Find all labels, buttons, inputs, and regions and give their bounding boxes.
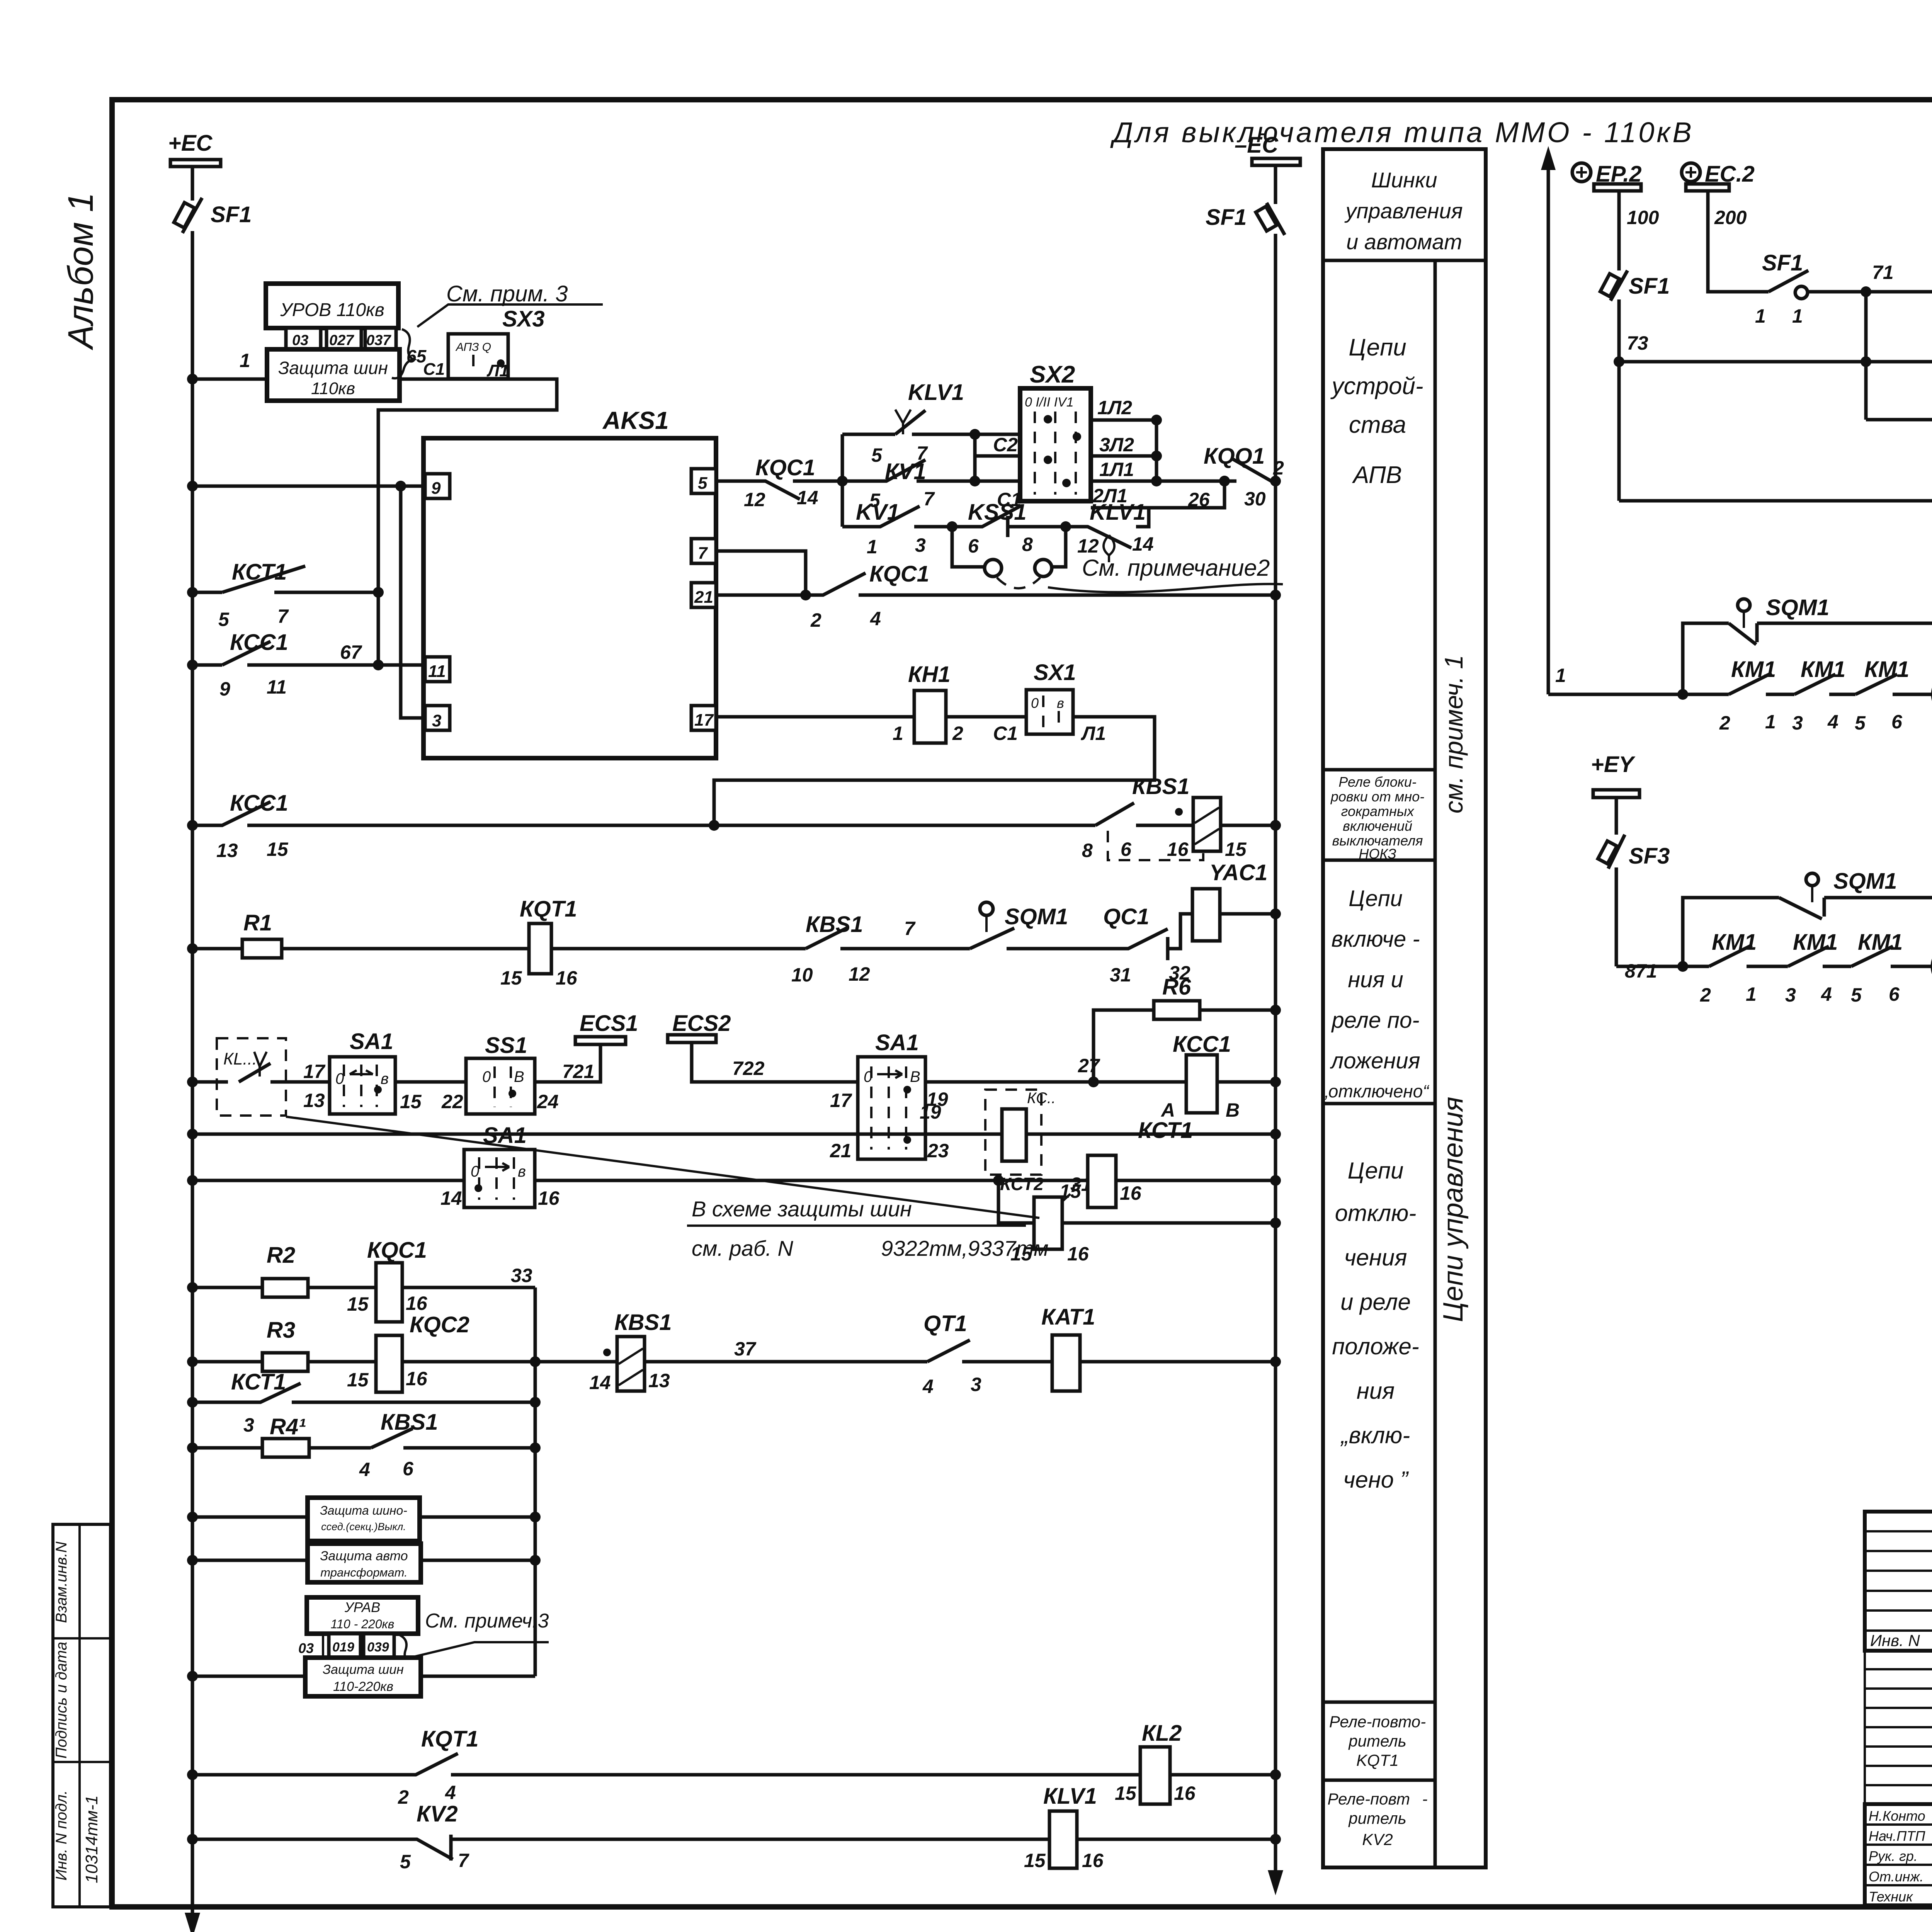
svg-text:722: 722 bbox=[732, 1058, 765, 1079]
svg-text:В: В bbox=[910, 1068, 920, 1085]
svg-text:КQC1: КQC1 bbox=[755, 455, 815, 480]
svg-text:5: 5 bbox=[400, 1851, 411, 1872]
svg-text:2: 2 bbox=[398, 1786, 409, 1808]
left rows column bbox=[1865, 1651, 1932, 1804]
svg-text:721: 721 bbox=[562, 1061, 594, 1082]
svg-text:9322тм,9337тм: 9322тм,9337тм bbox=[881, 1236, 1049, 1260]
cells 03 027 037 bbox=[286, 328, 321, 349]
svg-text:Альбом 1: Альбом 1 bbox=[61, 192, 100, 350]
wire C2 branch bbox=[975, 434, 1020, 481]
block Защита шин 110кВ bbox=[267, 349, 400, 401]
svg-text:15: 15 bbox=[267, 838, 289, 860]
svg-text:3: 3 bbox=[971, 1374, 981, 1395]
svg-text:управления: управления bbox=[1344, 199, 1463, 223]
svg-text:2: 2 bbox=[1700, 984, 1711, 1006]
svg-text:В схеме защиты шин: В схеме защиты шин bbox=[692, 1197, 912, 1221]
svg-text:Цепи: Цепи bbox=[1348, 1158, 1404, 1184]
svg-text:10: 10 bbox=[791, 964, 813, 986]
svg-text:КВS1: КВS1 bbox=[1132, 774, 1189, 799]
pin 5 bbox=[691, 469, 716, 493]
svg-text:ритель: ритель bbox=[1348, 1732, 1406, 1750]
svg-text:1: 1 bbox=[1765, 711, 1776, 733]
wire 2Л1 bbox=[1091, 481, 1225, 508]
svg-text:+EC: +EC bbox=[168, 131, 213, 156]
svg-text:+EY: +EY bbox=[1591, 752, 1636, 777]
svg-text:17: 17 bbox=[694, 711, 714, 730]
svg-text:3: 3 bbox=[432, 711, 441, 730]
svg-text:чения: чения bbox=[1344, 1245, 1407, 1270]
svg-text:1: 1 bbox=[240, 350, 250, 371]
block Защита авто-трансформат. bbox=[192, 1559, 535, 1562]
svg-text:устрой-: устрой- bbox=[1330, 373, 1423, 400]
svg-text:27: 27 bbox=[1078, 1055, 1100, 1077]
svg-text:12: 12 bbox=[744, 489, 765, 510]
svg-text:КСТ1: КСТ1 bbox=[231, 1369, 286, 1395]
wire row 11-15 bbox=[1619, 499, 1932, 503]
svg-text:KV2: KV2 bbox=[1362, 1830, 1393, 1849]
variant 2 main wire bbox=[1616, 898, 1779, 966]
svg-text:С1: С1 bbox=[993, 723, 1018, 744]
svg-text:Инв. N: Инв. N bbox=[1870, 1631, 1920, 1650]
svg-text:Защита шин: Защита шин bbox=[323, 1662, 404, 1677]
svg-text:871: 871 bbox=[1625, 960, 1657, 982]
svg-text:ложения: ложения bbox=[1330, 1048, 1420, 1073]
svg-text:ровки от мно-: ровки от мно- bbox=[1330, 789, 1424, 804]
pin 11 bbox=[425, 657, 450, 682]
svg-text:3: 3 bbox=[915, 534, 926, 556]
block Защита шин 110-220кВ bbox=[192, 1675, 535, 1678]
svg-text:Защита шино-: Защита шино- bbox=[320, 1503, 407, 1517]
svg-text:см. раб. N: см. раб. N bbox=[692, 1236, 793, 1260]
pin 3 bbox=[425, 706, 450, 730]
svg-text:13: 13 bbox=[216, 840, 238, 861]
svg-text:КСС1: КСС1 bbox=[230, 791, 288, 816]
svg-text:и реле: и реле bbox=[1340, 1289, 1411, 1315]
svg-text:QC1: QC1 bbox=[1103, 904, 1149, 929]
svg-text:KQT1: KQT1 bbox=[1356, 1751, 1399, 1769]
junction vertical bbox=[841, 434, 844, 527]
svg-text:R2: R2 bbox=[267, 1243, 295, 1268]
svg-text:в: в bbox=[381, 1070, 389, 1087]
wire row B2 bbox=[192, 1179, 1276, 1182]
svg-text:16: 16 bbox=[406, 1293, 428, 1314]
svg-text:SQМ1: SQМ1 bbox=[1833, 869, 1897, 894]
wire row A right bbox=[925, 1080, 1186, 1084]
svg-text:Реле-повт-: Реле-повт- bbox=[1328, 1790, 1428, 1808]
svg-text:Н.Конто: Н.Конто bbox=[1869, 1808, 1925, 1824]
svg-text:КLV1: КLV1 bbox=[1043, 1784, 1097, 1809]
svg-text:1: 1 bbox=[893, 723, 903, 744]
svg-text:67: 67 bbox=[340, 641, 362, 663]
svg-text:Инв. N подл.: Инв. N подл. bbox=[53, 1790, 70, 1881]
svg-text:SF1: SF1 bbox=[1206, 205, 1247, 230]
svg-text:1: 1 bbox=[1746, 983, 1757, 1005]
svg-text:АПВ: АПВ bbox=[1352, 462, 1402, 488]
svg-text:2: 2 bbox=[810, 609, 821, 631]
svg-text:SX1: SX1 bbox=[1034, 660, 1076, 685]
svg-text:15: 15 bbox=[500, 967, 522, 989]
svg-text:019: 019 bbox=[332, 1640, 354, 1655]
svg-text:–EC: –EC bbox=[1235, 133, 1279, 158]
svg-text:Цепи: Цепи bbox=[1349, 334, 1406, 361]
svg-text:1: 1 bbox=[1555, 665, 1566, 686]
svg-text:16: 16 bbox=[556, 967, 578, 989]
svg-text:КМ1: КМ1 bbox=[1712, 930, 1757, 955]
wires 1Л2 3Л2 ladder bbox=[1091, 420, 1156, 481]
svg-text:КАТ1: КАТ1 bbox=[1041, 1304, 1095, 1330]
svg-text:7: 7 bbox=[904, 918, 916, 939]
svg-text:В: В bbox=[1226, 1099, 1240, 1121]
svg-text:трансформат.: трансформат. bbox=[320, 1566, 407, 1579]
svg-text:5: 5 bbox=[698, 474, 707, 493]
svg-text:„вклю-: „вклю- bbox=[1340, 1422, 1410, 1448]
svg-text:110кв: 110кв bbox=[311, 379, 355, 398]
svg-text:7: 7 bbox=[458, 1850, 469, 1871]
svg-text:Рук. гр.: Рук. гр. bbox=[1869, 1848, 1918, 1864]
svg-text:Л1: Л1 bbox=[1081, 723, 1106, 744]
svg-text:КСТ2: КСТ2 bbox=[1000, 1174, 1044, 1194]
svg-text:УРОВ 110кв: УРОВ 110кв bbox=[280, 300, 384, 320]
svg-text:4: 4 bbox=[359, 1459, 370, 1480]
svg-text:24: 24 bbox=[537, 1091, 559, 1112]
pin 21 bbox=[691, 583, 716, 607]
upper small table with Инв.N bbox=[1865, 1512, 1932, 1651]
svg-text:6: 6 bbox=[1891, 711, 1903, 733]
svg-text:и автомат: и автомат bbox=[1346, 230, 1462, 254]
svg-text:9: 9 bbox=[431, 479, 441, 498]
svg-text:AKS1: AKS1 bbox=[602, 406, 669, 434]
left bus wire +EC bbox=[191, 167, 194, 1930]
svg-text:7: 7 bbox=[698, 544, 708, 563]
middle legend column box bbox=[1323, 149, 1486, 1867]
relay KC dashed bbox=[985, 1090, 1041, 1175]
svg-text:8: 8 bbox=[1022, 534, 1033, 555]
svg-text:15: 15 bbox=[347, 1293, 369, 1315]
svg-text:200: 200 bbox=[1714, 207, 1747, 228]
svg-text:3Л2: 3Л2 bbox=[1099, 434, 1134, 456]
svg-text:4: 4 bbox=[1827, 711, 1838, 733]
svg-text:KLV1: KLV1 bbox=[1090, 500, 1146, 525]
svg-text:0: 0 bbox=[1031, 695, 1039, 711]
svg-text:3: 3 bbox=[1785, 984, 1796, 1006]
svg-text:1: 1 bbox=[1792, 305, 1803, 327]
svg-text:SF1: SF1 bbox=[211, 202, 252, 227]
svg-text:Для выключателя типа ММО -: Для выключателя типа ММО - 110кВ bbox=[1110, 116, 1694, 148]
svg-text:КL2: КL2 bbox=[1142, 1721, 1182, 1746]
wire row A from bus bbox=[192, 1080, 330, 1084]
svg-text:4: 4 bbox=[922, 1376, 934, 1397]
svg-text:ритель: ритель bbox=[1348, 1809, 1406, 1827]
svg-text:5: 5 bbox=[1855, 712, 1866, 734]
svg-text:14: 14 bbox=[440, 1187, 462, 1209]
svg-text:SS1: SS1 bbox=[485, 1033, 527, 1058]
svg-text:КМ1: КМ1 bbox=[1801, 657, 1845, 682]
svg-text:КQТ1: КQТ1 bbox=[421, 1726, 478, 1752]
svg-text:8: 8 bbox=[1082, 840, 1093, 861]
svg-text:1Л2: 1Л2 bbox=[1097, 397, 1132, 418]
svg-text:15: 15 bbox=[1115, 1782, 1137, 1804]
svg-text:КQC1: КQC1 bbox=[869, 561, 929, 587]
svg-text:В: В bbox=[514, 1068, 524, 1085]
svg-text:КСС1: КСС1 bbox=[230, 630, 288, 655]
svg-text:SF3: SF3 bbox=[1629, 844, 1670, 869]
svg-text:5: 5 bbox=[871, 444, 883, 466]
svg-text:КС..: КС.. bbox=[1027, 1090, 1056, 1107]
svg-text:КСС1: КСС1 bbox=[1173, 1032, 1231, 1057]
svg-text:73: 73 bbox=[1627, 332, 1648, 354]
svg-text:3: 3 bbox=[243, 1414, 254, 1436]
svg-text:71: 71 bbox=[1872, 262, 1894, 283]
svg-text:НОКЗ: НОКЗ bbox=[1359, 846, 1396, 862]
svg-text:КСТ1: КСТ1 bbox=[1138, 1118, 1193, 1143]
breaker SF1 right bbox=[1267, 203, 1285, 235]
svg-text:см. примеч. 1: см. примеч. 1 bbox=[1439, 655, 1468, 813]
svg-text:15: 15 bbox=[347, 1369, 369, 1391]
svg-text:Защита шин: Защита шин bbox=[278, 358, 388, 378]
block Защита шино-ссед.(секц.)Выкл. bbox=[192, 1515, 535, 1519]
pin 7 bbox=[691, 539, 716, 563]
svg-text:См. примечание2: См. примечание2 bbox=[1082, 555, 1270, 581]
svg-text:1Л1: 1Л1 bbox=[1099, 459, 1134, 480]
pushbutton pair linkage bbox=[952, 527, 1066, 567]
svg-text:1: 1 bbox=[1755, 305, 1766, 327]
svg-text:7: 7 bbox=[923, 488, 935, 510]
svg-text:21: 21 bbox=[694, 588, 713, 607]
svg-text:37: 37 bbox=[734, 1338, 757, 1360]
breaker SF1 on EP line bbox=[1611, 270, 1628, 301]
breaker SF3 bbox=[1608, 835, 1625, 869]
svg-text:12: 12 bbox=[849, 963, 870, 985]
svg-text:0: 0 bbox=[482, 1068, 491, 1085]
left bus of signal circuits with up arrow bbox=[1547, 155, 1550, 694]
svg-text:включе -: включе - bbox=[1331, 927, 1420, 952]
svg-text:КV2: КV2 bbox=[417, 1801, 458, 1827]
svg-text:SF1: SF1 bbox=[1762, 250, 1803, 276]
svg-text:16: 16 bbox=[538, 1187, 560, 1209]
pin 9 bbox=[425, 474, 450, 498]
svg-text:YAC1: YAC1 bbox=[1209, 860, 1267, 885]
svg-text:14: 14 bbox=[1132, 533, 1154, 555]
svg-text:0: 0 bbox=[471, 1163, 479, 1180]
svg-text:УРАВ: УРАВ bbox=[344, 1599, 380, 1615]
svg-text:03: 03 bbox=[292, 332, 308, 349]
svg-text:С2: С2 bbox=[993, 434, 1018, 456]
svg-text:037: 037 bbox=[366, 332, 391, 349]
arrow down bottom of left bus bbox=[185, 1913, 200, 1932]
svg-text:КL...: КL... bbox=[223, 1049, 257, 1068]
svg-text:9: 9 bbox=[219, 678, 230, 700]
svg-text:03: 03 bbox=[298, 1640, 314, 1656]
svg-text:7: 7 bbox=[277, 605, 289, 627]
svg-text:100: 100 bbox=[1627, 207, 1659, 228]
svg-text:4: 4 bbox=[870, 608, 881, 629]
svg-text:ства: ства bbox=[1349, 412, 1406, 438]
svg-text:10314тм-1: 10314тм-1 bbox=[82, 1795, 101, 1883]
svg-text:отклю-: отклю- bbox=[1335, 1200, 1417, 1226]
svg-text:17: 17 bbox=[830, 1090, 852, 1111]
svg-text:Шинки: Шинки bbox=[1371, 168, 1437, 192]
svg-text:См. прим. 3: См. прим. 3 bbox=[446, 281, 568, 306]
svg-text:5: 5 bbox=[1851, 984, 1862, 1006]
svg-text:039: 039 bbox=[367, 1640, 389, 1655]
svg-text:16: 16 bbox=[1167, 838, 1189, 860]
svg-text:R3: R3 bbox=[267, 1318, 295, 1343]
svg-text:31: 31 bbox=[1110, 964, 1131, 986]
svg-text:0 I/II IV1: 0 I/II IV1 bbox=[1025, 395, 1074, 410]
svg-text:6: 6 bbox=[1889, 983, 1900, 1005]
svg-text:11: 11 bbox=[267, 676, 287, 698]
svg-text:3: 3 bbox=[1792, 712, 1803, 734]
svg-text:14: 14 bbox=[589, 1372, 611, 1393]
svg-text:110 - 220кв: 110 - 220кв bbox=[331, 1617, 395, 1631]
svg-text:26: 26 bbox=[1188, 489, 1210, 510]
svg-text:SX3: SX3 bbox=[502, 306, 545, 332]
svg-text:14: 14 bbox=[797, 487, 818, 509]
svg-text:SX2: SX2 bbox=[1030, 361, 1075, 388]
svg-text:Л1: Л1 bbox=[486, 361, 509, 380]
svg-text:чено ”: чено ” bbox=[1343, 1467, 1409, 1493]
relay contact KL dashed bbox=[217, 1038, 286, 1116]
contact KBS1 8-6 bbox=[1095, 803, 1193, 825]
svg-text:Подпись и дата: Подпись и дата bbox=[53, 1642, 70, 1759]
svg-text:4: 4 bbox=[1821, 983, 1832, 1005]
svg-text:в: в bbox=[518, 1163, 526, 1180]
vertical wire B to pin 3 bbox=[401, 486, 425, 718]
svg-text:Нач.ПТП: Нач.ПТП bbox=[1869, 1828, 1925, 1844]
svg-text:KLV1: KLV1 bbox=[908, 380, 964, 405]
breaker SF1 left bbox=[182, 198, 202, 233]
svg-text:От.инж.: От.инж. bbox=[1869, 1869, 1923, 1884]
svg-text:6: 6 bbox=[968, 535, 979, 557]
svg-text:АПЗ Q: АПЗ Q bbox=[455, 341, 491, 354]
svg-text:11: 11 bbox=[428, 662, 446, 681]
svg-text:ссед.(секц.)Выкл.: ссед.(секц.)Выкл. bbox=[321, 1521, 406, 1532]
svg-text:16: 16 bbox=[1174, 1782, 1196, 1804]
svg-text:ECS2: ECS2 bbox=[672, 1011, 731, 1036]
svg-text:гократных: гократных bbox=[1341, 803, 1415, 819]
pin 17 bbox=[691, 706, 716, 730]
svg-text:027: 027 bbox=[329, 332, 354, 349]
svg-text:КQТ1: КQТ1 bbox=[520, 896, 577, 922]
svg-text:23: 23 bbox=[927, 1140, 949, 1162]
svg-text:2: 2 bbox=[952, 723, 963, 744]
svg-text:Цепи управления: Цепи управления bbox=[1438, 1097, 1469, 1322]
svg-text:Цепи: Цепи bbox=[1349, 886, 1403, 911]
wire row B bbox=[192, 1133, 1276, 1136]
block УРАВ 110-220кВ bbox=[307, 1597, 418, 1634]
svg-text:13: 13 bbox=[648, 1370, 670, 1391]
svg-text:19: 19 bbox=[920, 1101, 941, 1123]
svg-text:SQМ1: SQМ1 bbox=[1766, 595, 1829, 620]
svg-text:2: 2 bbox=[1719, 712, 1730, 734]
svg-text:15: 15 bbox=[1225, 838, 1247, 860]
svg-text:в: в bbox=[1057, 695, 1064, 711]
svg-text:Взам.инв.N: Взам.инв.N bbox=[53, 1542, 70, 1623]
svg-text:R1: R1 bbox=[243, 910, 272, 935]
svg-text:15: 15 bbox=[1024, 1850, 1046, 1871]
svg-text:16: 16 bbox=[1120, 1182, 1142, 1204]
svg-text:QТ1: QТ1 bbox=[923, 1311, 967, 1336]
svg-text:Защита авто: Защита авто bbox=[320, 1549, 408, 1563]
svg-text:R4¹: R4¹ bbox=[270, 1414, 306, 1439]
svg-text:Реле блоки-: Реле блоки- bbox=[1338, 774, 1417, 790]
terminal EC.2 bbox=[1682, 163, 1700, 182]
svg-text:R6: R6 bbox=[1162, 975, 1191, 1000]
svg-text:17: 17 bbox=[303, 1061, 326, 1082]
svg-text:5: 5 bbox=[218, 609, 230, 630]
svg-text:положе-: положе- bbox=[1332, 1333, 1419, 1359]
svg-text:SA1: SA1 bbox=[875, 1030, 919, 1055]
svg-text:4: 4 bbox=[445, 1782, 456, 1803]
wire pin7 loop bbox=[716, 551, 806, 595]
svg-text:КН1: КН1 bbox=[908, 662, 951, 687]
svg-text:1: 1 bbox=[867, 536, 878, 558]
node 33 vertical bbox=[534, 1287, 537, 1676]
svg-text:ния: ния bbox=[1357, 1378, 1395, 1404]
svg-text:Техник: Техник bbox=[1869, 1889, 1913, 1905]
svg-text:„отключено“: „отключено“ bbox=[1321, 1081, 1430, 1101]
svg-text:21: 21 bbox=[830, 1140, 852, 1162]
svg-text:6: 6 bbox=[1121, 838, 1132, 860]
svg-text:ния и: ния и bbox=[1348, 967, 1403, 992]
wire to pin 9 bbox=[192, 485, 425, 488]
svg-text:KSS1: KSS1 bbox=[968, 500, 1027, 525]
svg-text:16: 16 bbox=[406, 1368, 428, 1389]
wire 1Л1 main row bbox=[1091, 480, 1236, 483]
svg-text:SA1: SA1 bbox=[350, 1029, 393, 1054]
svg-text:КQC1: КQC1 bbox=[367, 1238, 427, 1263]
terminal EP.2 bbox=[1572, 163, 1591, 182]
svg-text:33: 33 bbox=[511, 1265, 532, 1286]
svg-text:ECS1: ECS1 bbox=[580, 1011, 638, 1036]
svg-text:С1: С1 bbox=[423, 360, 445, 379]
block УРОВ 110кВ bbox=[266, 284, 398, 328]
svg-text:0: 0 bbox=[335, 1070, 344, 1087]
svg-text:22: 22 bbox=[441, 1091, 463, 1112]
svg-text:6: 6 bbox=[403, 1458, 414, 1480]
note В схеме защиты шин bbox=[286, 1117, 1039, 1218]
svg-text:КВS1: КВS1 bbox=[614, 1310, 672, 1335]
svg-text:включений: включений bbox=[1343, 818, 1412, 834]
signature table bbox=[1865, 1804, 1932, 1905]
svg-text:30: 30 bbox=[1244, 488, 1266, 510]
svg-text:12: 12 bbox=[1077, 535, 1099, 557]
svg-text:15: 15 bbox=[400, 1091, 422, 1112]
svg-text:13: 13 bbox=[303, 1090, 325, 1111]
svg-text:SQM1: SQM1 bbox=[1005, 904, 1068, 929]
svg-text:КМ1: КМ1 bbox=[1731, 657, 1776, 682]
svg-text:16: 16 bbox=[1067, 1243, 1089, 1265]
svg-text:реле по-: реле по- bbox=[1331, 1008, 1419, 1033]
svg-text:См. примеч.3: См. примеч.3 bbox=[425, 1610, 549, 1632]
svg-text:110-220кв: 110-220кв bbox=[333, 1679, 393, 1694]
left margin stamp boxes bbox=[53, 1524, 111, 1907]
svg-text:16: 16 bbox=[1082, 1850, 1104, 1871]
svg-text:SF1: SF1 bbox=[1629, 274, 1670, 299]
svg-text:КQQ1: КQQ1 bbox=[1204, 444, 1265, 469]
svg-text:КQC2: КQC2 bbox=[410, 1312, 469, 1337]
svg-text:Реле-повто-: Реле-повто- bbox=[1329, 1713, 1426, 1731]
